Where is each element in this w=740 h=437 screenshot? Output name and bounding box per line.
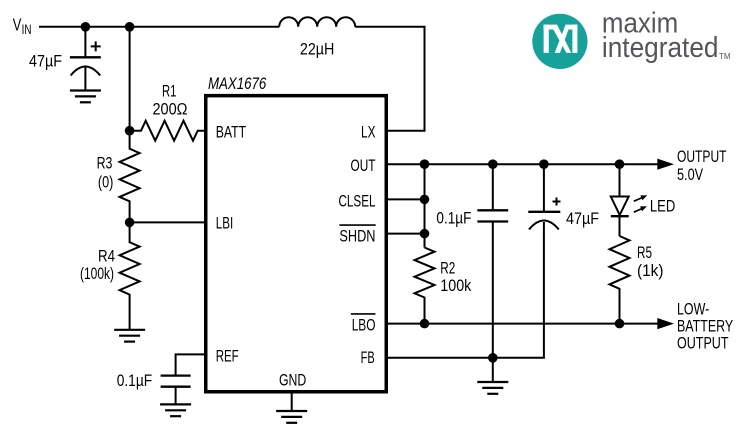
svg-text:integrated: integrated [602,32,719,64]
wire top rail from VIN to inductor [39,26,279,28]
resistor R3 (0) [97,131,140,223]
wire OUT down through CLSEL and SHDN to R2 [424,164,426,247]
svg-text:47µF: 47µF [566,209,599,228]
svg-text:OUTPUT: OUTPUT [677,147,727,166]
svg-text:0.1µF: 0.1µF [117,371,153,390]
wire VIN branch down to BATT node [129,27,131,131]
wire LBI stub [130,221,205,223]
resistor R2 100k [415,248,472,324]
svg-text:LX: LX [361,123,376,142]
svg-text:SHDN: SHDN [339,227,375,246]
svg-text:(100k): (100k) [80,264,114,283]
capacitor C2 47uF output [528,164,599,229]
junction dot LBO / R5 [615,319,625,329]
junction dot OUT / LED branch [615,159,625,169]
svg-text:47µF: 47µF [29,52,62,71]
svg-text:TM: TM [719,52,731,61]
junction dot FB / ground [488,353,498,363]
wire from inductor to LX pin [355,27,424,131]
svg-text:0.1µF: 0.1µF [436,209,471,228]
wire FB net to C2 bottom [388,222,544,358]
wire SHDN stub [388,233,425,235]
ground at C1 [70,91,101,103]
svg-text:R2: R2 [440,259,455,278]
wire REF stub to C3 [176,354,205,375]
IC U1 MAX1676 body [206,96,387,392]
junction dot VIN / C1 [81,22,91,32]
svg-text:(0): (0) [98,173,114,192]
svg-text:REF: REF [216,346,239,365]
pin LBO label with overline [351,314,376,335]
junction dot LBO / R2 [420,319,430,329]
svg-text:R1: R1 [162,81,176,100]
wire FB node down to ground [492,358,494,382]
arrow OUTPUT [657,147,726,184]
LED D1 [611,164,676,236]
junction dot LBI node [125,218,135,228]
svg-text:IN: IN [22,21,32,37]
svg-text:MAX1676: MAX1676 [208,74,267,93]
svg-text:LED: LED [650,197,675,216]
svg-text:(1k): (1k) [637,261,664,280]
svg-text:100k: 100k [440,276,471,295]
svg-text:R3: R3 [97,153,113,172]
svg-text:BATT: BATT [216,123,246,142]
resistor R1 200ohm [130,81,205,140]
svg-text:OUTPUT: OUTPUT [677,334,729,353]
svg-text:CLSEL: CLSEL [339,191,376,210]
junction dot OUT / C4 [488,159,498,169]
inductor L1 22uH [279,17,355,58]
arrow LOW-BATTERY OUTPUT [657,300,733,353]
ground at R4 [114,330,145,342]
svg-text:FB: FB [361,348,375,367]
wire OUT net [388,163,658,165]
ground at REF cap [160,404,191,416]
svg-text:LBI: LBI [216,214,234,233]
resistor R5 (1k) [610,236,664,324]
junction dot BATT node [125,126,135,136]
logo maxim integrated [532,8,731,70]
svg-text:GND: GND [279,371,306,390]
junction dot CLSEL node [420,195,430,205]
svg-text:R5: R5 [637,243,652,262]
svg-text:R4: R4 [98,246,115,265]
capacitor C1 47uF input [29,27,101,91]
ground at GND pin [276,411,307,423]
junction dot OUT / R2 pullup branch [420,159,430,169]
capacitor C4 0.1uF output [436,164,508,358]
resistor R4 (100k) [80,222,140,329]
svg-text:OUT: OUT [351,156,376,175]
junction dot OUT / C2 [539,159,549,169]
capacitor C3 0.1uF at REF [117,371,191,404]
ground at FB net [477,382,508,394]
junction dot SHDN node [420,229,430,239]
wire LBO net [388,323,658,325]
wire CLSEL stub [388,198,425,200]
pin SHDN label with overline [339,225,375,245]
svg-text:V: V [13,15,22,35]
wire GND pin stub [291,394,293,412]
svg-text:22µH: 22µH [300,39,335,58]
junction dot VIN / R3 branch [125,22,135,32]
svg-text:200Ω: 200Ω [153,100,188,119]
svg-text:LBO: LBO [352,316,376,335]
node VIN label [13,15,32,37]
svg-text:5.0V: 5.0V [677,165,704,184]
